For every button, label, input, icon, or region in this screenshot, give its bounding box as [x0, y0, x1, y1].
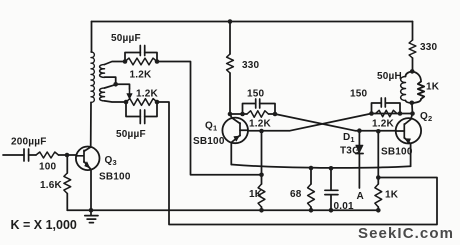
svg-text:Q1: Q1 [205, 121, 217, 133]
svg-text:50µH: 50µH [377, 71, 402, 82]
svg-text:150: 150 [247, 89, 265, 100]
svg-text:50µµF: 50µµF [116, 129, 146, 140]
svg-text:1K: 1K [249, 189, 263, 200]
svg-text:150: 150 [350, 89, 368, 100]
svg-text:1K: 1K [426, 82, 440, 93]
svg-text:1.2K: 1.2K [372, 119, 395, 130]
svg-text:Q3: Q3 [105, 155, 117, 167]
svg-text:T3G: T3G [340, 146, 360, 157]
svg-text:K = X 1,000: K = X 1,000 [11, 218, 77, 232]
svg-text:330: 330 [242, 60, 260, 71]
svg-text:1.2K: 1.2K [136, 89, 159, 100]
svg-text:D1: D1 [343, 132, 355, 144]
svg-text:50µµF: 50µµF [111, 33, 141, 44]
svg-text:200µµF: 200µµF [11, 137, 47, 148]
svg-text:SB100: SB100 [381, 147, 413, 158]
svg-text:0.01: 0.01 [334, 201, 355, 212]
svg-text:1.6K: 1.6K [40, 180, 63, 191]
svg-text:SB100: SB100 [99, 172, 131, 183]
svg-text:68: 68 [290, 189, 302, 200]
svg-text:SB100: SB100 [193, 136, 225, 147]
svg-text:1K: 1K [385, 190, 399, 201]
svg-text:A: A [357, 191, 364, 202]
svg-text:Q2: Q2 [420, 111, 432, 123]
svg-text:1.2K: 1.2K [130, 70, 153, 81]
svg-text:100: 100 [39, 162, 57, 173]
svg-text:330: 330 [420, 42, 438, 53]
svg-text:1.2K: 1.2K [249, 119, 272, 130]
